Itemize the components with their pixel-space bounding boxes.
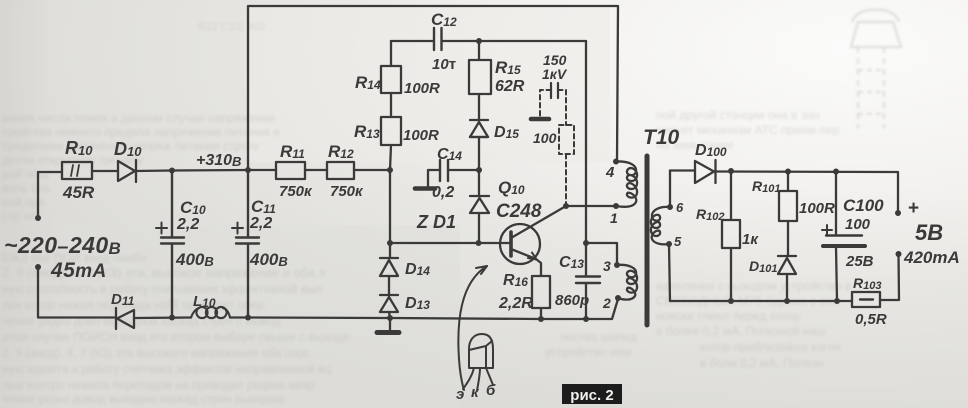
- svg-text:рис. 2: рис. 2: [570, 387, 613, 404]
- svg-text:С248: С248: [496, 201, 542, 222]
- svg-text:100R: 100R: [404, 80, 440, 97]
- resistor R11: [276, 162, 305, 179]
- capacitor C100: [822, 172, 865, 302]
- svg-text:10т: 10т: [432, 56, 456, 73]
- node C10 top: [169, 168, 175, 174]
- wire pin3: [586, 243, 617, 265]
- node R102 top: [728, 168, 734, 174]
- wire: [230, 316, 390, 319]
- diode D11: [116, 308, 134, 329]
- svg-text:100R: 100R: [403, 127, 439, 144]
- svg-text:ную способность и работу считы: ную способность и работу считывания эффе…: [2, 282, 322, 296]
- wire R14 branch top: [390, 41, 392, 66]
- node C14 right: [476, 167, 482, 173]
- svg-text:стр но: стр но: [2, 209, 37, 223]
- wire: [540, 308, 542, 319]
- capacitor C13: [576, 243, 600, 319]
- wire: [390, 93, 392, 117]
- svg-text:2, 9 (анод); 4, 7 (КЗ) эта выс: 2, 9 (анод); 4, 7 (КЗ) эта высокого напр…: [2, 346, 310, 360]
- wire: [134, 316, 191, 319]
- transistor Q10: [500, 206, 566, 276]
- svg-text:D100: D100: [695, 142, 727, 159]
- node base wire left: [387, 240, 393, 246]
- node R16 bottom: [538, 316, 544, 322]
- wire: [92, 170, 118, 172]
- node D101 bottom: [784, 298, 790, 304]
- wire: [354, 169, 390, 171]
- wire C12 branch down: [585, 41, 587, 243]
- svg-text:новски тлеют перед котор: новски тлеют перед котор: [656, 309, 801, 323]
- wire: [390, 145, 391, 170]
- output terminal plus: [895, 210, 901, 216]
- svg-text:45mА: 45mА: [50, 259, 107, 282]
- svg-text:в более 0,2 мА. Полезной наш: в более 0,2 мА. Полезной наш: [656, 324, 826, 338]
- wire: [478, 137, 480, 196]
- svg-text:+: +: [908, 198, 919, 219]
- svg-text:Т10: Т10: [643, 126, 680, 149]
- node +310V: [245, 167, 251, 173]
- svg-text:5: 5: [674, 234, 682, 249]
- svg-text:6: 6: [676, 200, 684, 215]
- resistor R16: [532, 276, 550, 308]
- svg-text:2,2: 2,2: [249, 215, 272, 232]
- svg-text:чение резко довод выходно каск: чение резко довод выходно каскад строч в…: [2, 392, 284, 406]
- transformer core: [645, 156, 650, 325]
- svg-text:2,2: 2,2: [176, 216, 199, 233]
- output top wire: [670, 169, 695, 171]
- svg-text:~220–240В: ~220–240В: [4, 232, 121, 258]
- svg-text:+310В: +310В: [196, 152, 241, 169]
- wire: [390, 299, 618, 319]
- diode D15: [470, 120, 488, 137]
- node C100 bottom: [834, 298, 840, 304]
- svg-text:100: 100: [533, 130, 557, 146]
- base wire: [390, 242, 506, 244]
- svg-text:В12 С1/2 ЖО: В12 С1/2 ЖО: [198, 21, 266, 33]
- transformer T10 primary winding 4-1: [613, 159, 637, 210]
- svg-text:воль ска: воль ска: [2, 181, 50, 195]
- output terminal minus: [896, 251, 902, 257]
- svg-text:0,5R: 0,5R: [855, 311, 887, 328]
- svg-text:в боли 0,2 мА. Полезн: в боли 0,2 мА. Полезн: [700, 356, 824, 370]
- node C10 bottom: [169, 315, 175, 321]
- capacitor C11: [232, 170, 259, 317]
- svg-text:идентичен с выходом устройство: идентичен с выходом устройство в: [656, 279, 852, 293]
- svg-text:D15: D15: [494, 124, 519, 141]
- svg-text:62R: 62R: [495, 78, 525, 95]
- diode D14: [380, 258, 398, 276]
- snubber resistor 100 dashed: [559, 98, 574, 204]
- svg-text:D11: D11: [111, 291, 135, 308]
- svg-text:устройство нем: устройство нем: [545, 345, 632, 359]
- svg-text:100R: 100R: [799, 200, 835, 217]
- svg-text:Z D1: Z D1: [416, 212, 456, 232]
- resistor R12: [327, 162, 354, 179]
- wire C12 left: [391, 40, 433, 42]
- svg-text:этом случае ПОИСН вход его вто: этом случае ПОИСН вход его втором выборе…: [2, 330, 350, 344]
- svg-text:750к: 750к: [330, 183, 364, 200]
- diode D101: [778, 256, 796, 301]
- svg-text:ную идеюта и работу счетчика э: ную идеюта и работу счетчика эффектов на…: [2, 362, 331, 376]
- node D13 bottom rail: [387, 315, 393, 321]
- svg-text:4: 4: [605, 164, 615, 181]
- svg-text:100: 100: [845, 216, 871, 233]
- resistor R14: [381, 66, 401, 93]
- wire: [478, 94, 480, 120]
- svg-text:1кV: 1кV: [542, 66, 568, 82]
- svg-text:1к: 1к: [742, 231, 759, 248]
- svg-text:чение редко дово выходной каск: чение редко дово выходной каскад строч с…: [2, 314, 280, 328]
- zener ZD1: [470, 196, 489, 213]
- svg-text:вания числа помех в данном слу: вания числа помех в данном случае напряж…: [2, 111, 276, 125]
- input terminal bottom: [35, 264, 41, 270]
- capacitor C14: [415, 160, 479, 189]
- svg-text:тройства нижнего предела напря: тройства нижнего предела напряжения пита…: [2, 125, 280, 139]
- wire: [388, 276, 390, 294]
- top frame wire: [248, 6, 618, 170]
- svg-text:котор приблизtakes взгля: котор приблизtakes взгля: [700, 340, 841, 354]
- svg-text:5В: 5В: [915, 220, 943, 245]
- inductor L10: [191, 307, 230, 318]
- svg-text:С14: С14: [437, 146, 462, 163]
- svg-text:чество шипед: чество шипед: [560, 330, 637, 344]
- svg-text:750к: 750к: [279, 183, 313, 200]
- wire C12 right: [442, 40, 586, 42]
- node R15 top: [476, 38, 482, 44]
- input terminal top: [35, 215, 41, 221]
- svg-text:рой общ: рой общ: [2, 167, 49, 181]
- capacitor C10: [156, 170, 184, 317]
- pointer arrow to Q10: [458, 266, 487, 390]
- svg-text:3: 3: [603, 258, 611, 274]
- resistor R10: [62, 162, 92, 179]
- wire: [389, 312, 390, 318]
- wire: [478, 213, 480, 243]
- node collector: [563, 203, 569, 209]
- wire: [305, 169, 327, 171]
- transformer T10 winding 3-2: [614, 262, 637, 301]
- resistor R103: [852, 292, 880, 307]
- svg-text:1: 1: [610, 210, 618, 226]
- svg-text:R16: R16: [503, 272, 528, 289]
- resistor R102: [722, 171, 740, 301]
- node C11 bottom: [245, 315, 251, 321]
- wire: [38, 172, 62, 218]
- wire: [716, 172, 899, 214]
- resistor R15: [469, 60, 491, 94]
- wire D14 branch: [389, 170, 391, 257]
- figure caption ris.2: [562, 384, 622, 404]
- node R102 bottom: [728, 298, 734, 304]
- transformer T10 feedback winding 6-5: [651, 204, 673, 247]
- snubber capacitor 150/1kV dashed leads: [531, 83, 566, 119]
- svg-text:С100: С100: [843, 196, 884, 215]
- resistor R101: [779, 172, 797, 257]
- diode D100: [695, 160, 716, 183]
- svg-text:L10: L10: [193, 293, 216, 310]
- diode D10: [118, 160, 136, 182]
- capacitor C12: [434, 28, 442, 50]
- svg-text:D14: D14: [405, 261, 430, 278]
- resistor R13: [381, 117, 401, 145]
- diode D13: [380, 295, 398, 312]
- wire: [136, 170, 248, 171]
- svg-text:2: 2: [602, 295, 611, 311]
- svg-text:D13: D13: [405, 295, 430, 312]
- svg-text:б: б: [486, 382, 496, 399]
- node C13 top: [583, 240, 589, 246]
- output bottom wire: [670, 300, 852, 302]
- wire: [880, 254, 899, 300]
- node ZD1 bottom: [476, 240, 482, 246]
- phone ghost top-right: [851, 10, 901, 128]
- wire: [248, 169, 276, 171]
- svg-text:25В: 25В: [845, 253, 874, 270]
- transistor package drawing: [463, 334, 493, 391]
- svg-text:0,2: 0,2: [432, 184, 454, 201]
- node R101 top: [785, 169, 791, 175]
- svg-text:э: э: [456, 386, 464, 403]
- svg-text:420mА: 420mА: [903, 248, 960, 267]
- ground: [377, 318, 399, 333]
- svg-text:860р: 860р: [555, 292, 589, 309]
- svg-text:нирует механизм АТС прием-пер: нирует механизм АТС прием-пер: [656, 123, 840, 137]
- svg-text:С13: С13: [559, 254, 584, 271]
- wire: [478, 41, 480, 60]
- svg-text:2,2R: 2,2R: [498, 295, 533, 312]
- node C100 top: [833, 169, 839, 175]
- svg-text:пой другой станции она в зан: пой другой станции она в зан: [656, 108, 820, 122]
- node R13 bottom: [387, 167, 393, 173]
- svg-text:45R: 45R: [62, 183, 95, 202]
- wire output left vertical: [669, 171, 670, 302]
- svg-text:лых контро нежела перепадов на: лых контро нежела перепадов на приводит …: [2, 378, 315, 392]
- node C13 bottom: [583, 316, 589, 322]
- wire: [38, 267, 116, 318]
- wire collector to pin1: [566, 205, 616, 207]
